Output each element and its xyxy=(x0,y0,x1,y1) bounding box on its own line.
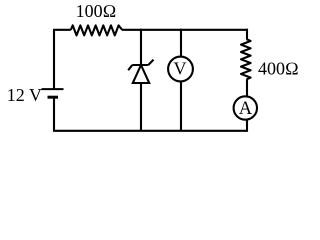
svg-text:V: V xyxy=(174,58,187,78)
svg-text:100Ω: 100Ω xyxy=(76,1,117,21)
svg-text:400Ω: 400Ω xyxy=(258,59,299,79)
svg-text:A: A xyxy=(239,99,253,119)
svg-text:12 V: 12 V xyxy=(7,85,42,105)
